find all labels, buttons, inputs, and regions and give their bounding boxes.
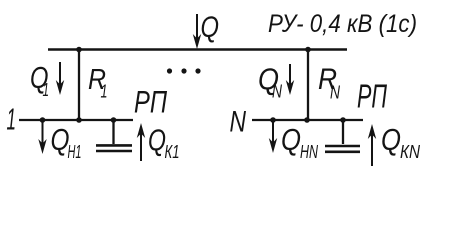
svg-text:N: N [272,82,283,102]
label QH1 [51,122,82,162]
arrow QHN load [269,120,277,153]
svg-text:К1: К1 [165,142,180,162]
wire capacitor C1 stem [112,120,114,144]
capacitor bank C1 [96,145,132,151]
junction node feeder-N [304,117,310,123]
label Q1 [30,60,49,100]
wire feeder N vertical (line RN) [307,50,309,121]
svg-text:1: 1 [101,82,108,102]
wire node-N horizontal [252,119,363,121]
svg-text:1: 1 [7,102,17,137]
svg-text:Н1: Н1 [68,142,82,162]
wire node-1 horizontal [19,119,133,121]
capacitor bank CN [325,146,360,152]
svg-text:N: N [330,83,341,103]
svg-text:Q: Q [381,122,401,157]
junction node QH1 [40,117,46,123]
arrow QN flow [286,64,294,95]
junction node feeder-1 [76,117,82,123]
label QN [258,62,283,102]
ellipsis dots [167,68,201,73]
junction node capacitor C1 [111,117,117,123]
svg-text:КN: КN [400,142,421,162]
svg-text:Q: Q [201,11,220,44]
svg-text:РП: РП [134,84,167,120]
svg-text:1: 1 [43,80,50,100]
junction node QHN [270,117,276,123]
svg-text:НN: НN [300,142,319,162]
svg-text:N: N [230,106,247,139]
bus РУ-0,4 кВ (1с) horizontal wire [48,48,347,51]
arrow Q1 flow [56,62,64,95]
arrow QK1 compensation [137,123,145,161]
label QK1 [148,123,180,163]
wire feeder 1 vertical (line R1) [78,50,80,121]
arrow QH1 load [38,120,46,154]
wire capacitor CN stem [342,120,344,144]
label QHN [281,122,319,162]
label R1 [88,64,108,102]
arrow Q into bus [193,14,201,49]
arrow QKN compensation [368,124,376,166]
label QKN [381,122,421,162]
node on bus (feeder 1) [76,47,82,53]
svg-text:РП: РП [357,78,387,115]
svg-text:Q: Q [281,122,301,157]
label RN [318,63,341,103]
node on bus (feeder N) [305,47,311,53]
svg-text:РУ- 0,4 кВ (1с): РУ- 0,4 кВ (1с) [268,10,417,38]
svg-text:Q: Q [148,123,166,158]
junction node capacitor CN [340,117,346,123]
